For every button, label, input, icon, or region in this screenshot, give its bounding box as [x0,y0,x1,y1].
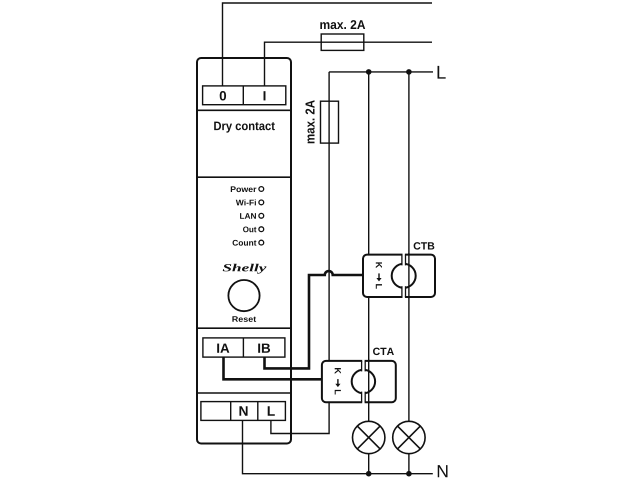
junction dot N line right [406,471,412,477]
wire stub terminal L inside device [271,420,291,433]
wire IB to CTB with hop over feed wire [265,271,364,368]
terminal label L [268,406,275,415]
LED Wi-Fi [259,200,264,205]
label Reset [232,316,238,322]
fuse F2 [321,101,339,143]
label K arrow L (CTA) [335,368,341,374]
lamp E2 [393,421,425,453]
LED LAN [259,213,264,218]
device body Shelly module [197,58,291,444]
junction dot L line right [406,69,412,75]
LED label LAN [240,213,244,219]
terminal label N [239,406,247,415]
wire stub I inside device [264,59,266,86]
device section line 4 [197,392,291,394]
label CTA [373,348,380,355]
value label max. 2A (F1) [320,22,329,29]
Shelly logo [223,264,232,271]
LED label Power [231,186,236,192]
value label max. 2A (F2) [305,100,314,143]
wire IA to CTA [224,357,322,379]
LED Count [259,240,264,245]
LED label Count [233,240,239,246]
junction dot L line left [366,69,372,75]
LED label Wi-Fi [236,200,244,206]
wire feed from L through fuse F2 to device terminal L [271,72,329,434]
current transformer CTB [363,253,435,298]
wire from terminal O to top line [223,3,433,86]
wire load overlay through CTB [408,253,410,298]
reset button [228,280,259,311]
wire stub IA inside device [224,357,292,379]
label K arrow L (CTB) [376,262,382,268]
device section line 3 [197,327,291,329]
LED Power [259,187,264,192]
node N label [438,465,448,477]
terminal label IA [217,344,219,353]
terminal block O/I [203,86,286,105]
wire stub O inside device [222,59,224,86]
node L label [438,66,446,79]
wire from terminal I through fuse F1 [265,42,433,86]
label Dry contact [214,122,221,130]
wire load 1 through CTA to lamp E1 [368,72,370,474]
LED label Out [243,226,249,232]
terminal label O [220,91,226,100]
device section line 1 [197,109,291,111]
terminal block N/L [201,402,286,421]
terminal block IA/IB [203,338,285,357]
terminal label I [264,91,266,100]
junction dot N line left [366,471,372,477]
wire L line [329,71,433,73]
device section line 2 [197,176,291,178]
current transformer CTA [322,360,396,404]
wire load 2 through CTB to lamp E2 [408,72,410,474]
wire stub IB inside device [265,357,292,368]
wire load overlay through CTA [368,360,370,404]
wire stub N inside device [242,420,244,443]
label CTB [414,242,421,249]
terminal label IB [258,344,260,353]
lamp E1 [353,421,385,453]
fuse F1 [321,34,364,50]
wire N from terminal N to N line [243,420,433,473]
LED Out [259,227,264,232]
